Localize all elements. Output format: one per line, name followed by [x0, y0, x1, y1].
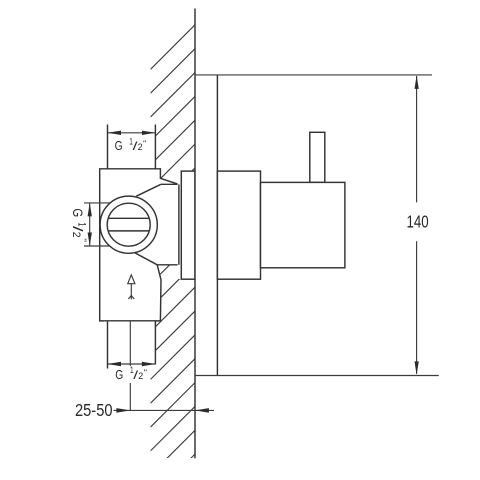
wall plate (escutcheon) [195, 75, 217, 376]
handle lever stem [310, 132, 325, 182]
svg-text:": " [78, 238, 88, 242]
top supply pipe G 1/2 [107, 125, 109, 169]
dimension 25-50: line and arrows [114, 409, 131, 411]
svg-text:2: 2 [70, 232, 82, 238]
bottom supply pipe G 1/2 [107, 321, 109, 369]
dimension 140: line and arrows [416, 76, 418, 202]
svg-text:140: 140 [407, 212, 429, 232]
valve body with integral housing [100, 169, 179, 321]
svg-text:G: G [115, 138, 123, 153]
svg-text:G: G [70, 208, 85, 217]
extension line bottom (plate bottom) [195, 375, 439, 377]
dimension G 1/2 bottom: line and arrows [108, 363, 156, 365]
cone line lower from port boss [135, 253, 157, 265]
port slot lower line [108, 230, 149, 232]
svg-text:": " [143, 139, 147, 148]
svg-text:2: 2 [138, 371, 143, 382]
label G 1/2 bottom [115, 365, 147, 382]
dimension G 1/2 top: line and arrows [108, 132, 156, 134]
label G 1/2 top [115, 136, 147, 153]
wall sleeve behind plate [181, 171, 195, 279]
svg-text:2: 2 [138, 142, 143, 153]
left dimension extension lines [84, 202, 110, 204]
label G 1/2 left (rotated) [70, 208, 88, 242]
port slot upper line [108, 217, 149, 219]
side port inner circle [107, 203, 150, 246]
dimension G 1/2 left: line and arrows [89, 203, 91, 246]
side port boss outer circle [100, 196, 157, 253]
white-out for top G 1/2 text [111, 136, 154, 155]
collar between plate and handle [217, 171, 260, 279]
housing top face line [161, 183, 179, 185]
svg-text:25-50: 25-50 [75, 400, 113, 420]
wall hatching [151, 25, 196, 480]
bottom supply pipe white-out [104, 322, 155, 368]
depth reference line [129, 321, 131, 411]
flow direction arrow [128, 275, 135, 300]
svg-text:G: G [115, 367, 123, 382]
white gap between housing and sleeve [178, 172, 184, 279]
white-out for top supply pipe [104, 120, 155, 169]
housing right edge redraw [178, 184, 180, 264]
cone line upper from port boss [136, 184, 161, 196]
white-out for bottom G 1/2 text [110, 366, 150, 383]
handle body [261, 182, 345, 267]
wall face line [194, 9, 196, 459]
svg-text:": " [144, 369, 148, 378]
extension line top (plate top) [195, 74, 432, 76]
